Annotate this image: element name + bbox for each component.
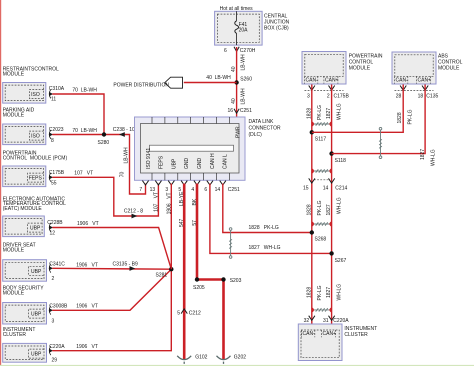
svg-text:C3135 - B9: C3135 - B9 (113, 261, 139, 267)
svg-text:40 LB-WH: 40 LB-WH (206, 75, 231, 81)
splice S281 (169, 267, 173, 271)
module RESTRAINTS CONTROL MODULE box (3, 83, 46, 104)
svg-text:6: 6 (224, 48, 227, 54)
svg-text:C214: C214 (335, 186, 347, 192)
wire 40 LB-WH from power distribution to S260 (184, 82, 237, 84)
svg-text:C251: C251 (240, 108, 252, 114)
svg-text:1906 VT: 1906 VT (76, 344, 98, 350)
svg-text:107: 107 (153, 203, 159, 212)
svg-text:1828: 1828 (306, 108, 312, 119)
twisted pair symbol above C214 (312, 169, 332, 173)
ground G102 (177, 356, 191, 364)
svg-text:1827: 1827 (326, 204, 332, 215)
svg-text:40: 40 (231, 98, 237, 104)
svg-text:S267: S267 (335, 258, 347, 264)
wire CAN H 1827 WH-LG from DLC pin 6 to S267 (210, 184, 332, 254)
svg-text:C228B: C228B (47, 220, 63, 226)
svg-text:MODULE: MODULE (438, 65, 460, 71)
svg-text:GND: GND (184, 158, 190, 170)
wire 1906 VT from instrument cluster to S281 (52, 269, 171, 351)
ABS pin arrows (400, 86, 428, 91)
twisted pair symbol above S117 (312, 122, 332, 126)
svg-text:MODULE: MODULE (349, 65, 371, 71)
svg-text:14: 14 (323, 186, 329, 192)
svg-text:WH-LG: WH-LG (431, 149, 437, 166)
svg-text:C341C: C341C (49, 262, 65, 268)
svg-text:MODULE: MODULE (3, 290, 25, 296)
svg-text:BOX (CJB): BOX (CJB) (264, 26, 289, 32)
svg-text:CAN+: CAN+ (418, 77, 432, 83)
svg-text:1906 VT: 1906 VT (76, 304, 98, 310)
svg-text:G202: G202 (234, 355, 246, 361)
svg-text:28: 28 (396, 94, 402, 100)
svg-text:20A: 20A (239, 27, 249, 33)
svg-text:UBP: UBP (31, 269, 42, 275)
svg-text:FEPS: FEPS (159, 155, 165, 169)
svg-text:DATA LINK: DATA LINK (249, 119, 274, 125)
page bottom edge green border artifact (0, 365, 474, 366)
connector C228B arrow (49, 225, 53, 229)
svg-text:3: 3 (52, 319, 55, 325)
svg-text:57: 57 (192, 220, 198, 226)
module PARKING AID MODULE box (3, 124, 46, 145)
svg-text:7: 7 (139, 187, 142, 193)
svg-text:PK-LG: PK-LG (317, 285, 323, 300)
svg-text:ISO: ISO (31, 134, 40, 140)
svg-text:WH-LG: WH-LG (337, 197, 343, 214)
twisted pair symbol between S117/S118 lines (379, 127, 382, 158)
DLC bottom pin arrows (142, 181, 226, 185)
svg-text:1906: 1906 (166, 203, 172, 214)
in-line connector C3135 - B9 arrow (130, 266, 136, 271)
svg-text:1827: 1827 (420, 149, 426, 160)
module PCM box (3, 166, 46, 187)
svg-text:1827: 1827 (326, 108, 332, 119)
svg-text:14: 14 (215, 187, 221, 193)
svg-text:C220A: C220A (49, 344, 65, 350)
svg-text:31: 31 (323, 318, 329, 324)
PCM bottom dashed connector line (305, 90, 344, 92)
svg-text:ISO 9141: ISO 9141 (146, 148, 152, 169)
svg-text:MODULE: MODULE (3, 72, 25, 78)
connector C3008B arrow (49, 308, 53, 312)
svg-text:C220A: C220A (333, 318, 349, 324)
svg-text:6: 6 (204, 187, 207, 193)
svg-text:CAN+: CAN+ (325, 77, 339, 83)
svg-text:CAN-: CAN- (303, 331, 316, 337)
svg-text:S268: S268 (315, 237, 327, 243)
svg-text:C238 - 10: C238 - 10 (113, 127, 135, 133)
connector C2023 arrow (49, 132, 53, 136)
svg-text:70: 70 (120, 172, 126, 178)
in-line connector C214 (314, 179, 329, 181)
svg-text:PWR: PWR (235, 126, 241, 138)
svg-text:S280: S280 (98, 140, 110, 146)
svg-text:PK-LG: PK-LG (317, 105, 323, 120)
svg-text:LB-WH: LB-WH (123, 147, 129, 164)
svg-text:CONNECTOR: CONNECTOR (249, 126, 282, 132)
svg-text:1827 WH-LG: 1827 WH-LG (249, 245, 281, 251)
wire S118 to ABS CAN+ (332, 85, 426, 154)
svg-text:1828 PK-LG: 1828 PK-LG (249, 225, 279, 231)
svg-text:CAN H: CAN H (210, 153, 216, 169)
svg-text:CONTROL MODULE (PCM): CONTROL MODULE (PCM) (3, 155, 68, 161)
splice S118 (329, 151, 333, 155)
svg-text:S281: S281 (156, 273, 168, 279)
svg-text:(EATC) MODULE: (EATC) MODULE (3, 206, 43, 212)
module ABS CONTROL MODULE box (392, 52, 436, 84)
wire UBP 1906 from DLC pin 3 to S281 (170, 184, 172, 270)
module EATC box (3, 216, 45, 237)
svg-text:18: 18 (418, 94, 424, 100)
svg-text:S117: S117 (315, 137, 327, 143)
wire CAN L 1828 PK-LG from DLC pin 14 to S268 (223, 184, 312, 233)
splice S260 (234, 80, 238, 84)
in-line connector C212 - 8 arrow (132, 214, 138, 219)
module BODY SECURITY box (3, 303, 47, 325)
svg-text:FEPS: FEPS (29, 176, 43, 182)
connector C270H arrow (234, 47, 239, 52)
svg-text:CAN+: CAN+ (323, 331, 337, 337)
wire 70 LB-WH from C310A to S280 (52, 94, 104, 135)
svg-text:C270H: C270H (240, 48, 256, 54)
svg-text:CAN L: CAN L (223, 154, 229, 169)
connector C220A arrows (309, 316, 335, 321)
svg-text:C212: C212 (189, 311, 201, 317)
in-line connector C238 - 10 arrow (119, 132, 125, 137)
wire 1906 VT from body security to S281 (52, 269, 171, 310)
wire GND 57 BK from DLC pin 4 to S205 (197, 184, 224, 360)
svg-text:55: 55 (51, 181, 57, 187)
svg-text:70 LB-WH: 70 LB-WH (72, 87, 97, 93)
svg-text:CAN-: CAN- (396, 77, 409, 83)
wire 107 VT from PCM to DLC pin 13 (52, 177, 158, 216)
svg-text:2: 2 (52, 276, 55, 282)
wire 1906 VT from driver seat to S281 (52, 267, 171, 270)
splice S203 (221, 277, 225, 281)
svg-text:3: 3 (307, 94, 310, 100)
splice S117 (310, 130, 314, 134)
svg-text:G102: G102 (195, 355, 207, 361)
svg-text:(DLC): (DLC) (249, 132, 263, 138)
svg-text:1906 VT: 1906 VT (76, 262, 98, 268)
svg-text:1828: 1828 (306, 287, 312, 298)
in-line connector C212 pin 5 arrow (181, 309, 187, 314)
svg-text:CLUSTER: CLUSTER (3, 332, 27, 338)
connector C251 arrow (top) (234, 109, 239, 114)
svg-text:MODULE: MODULE (3, 113, 25, 119)
svg-text:1828: 1828 (397, 112, 403, 123)
svg-text:C2023: C2023 (49, 127, 64, 133)
svg-text:5: 5 (177, 311, 180, 317)
wire 1906 VT from EATC to S281 (52, 228, 171, 270)
ground G202 (217, 356, 231, 364)
module POWERTRAIN CONTROL MODULE (right) box (302, 52, 346, 85)
ABS bottom dashed connector line (395, 90, 434, 92)
svg-text:547: 547 (179, 218, 185, 227)
svg-text:PK-LG: PK-LG (407, 109, 413, 124)
svg-text:1828: 1828 (306, 204, 312, 215)
svg-text:107 VT: 107 VT (74, 171, 93, 177)
svg-text:UBP: UBP (171, 158, 177, 169)
power distribution flag (165, 77, 183, 88)
svg-text:VT: VT (166, 192, 172, 198)
module DRIVER SEAT box (3, 260, 47, 282)
module INSTRUMENT CLUSTER (right) box (298, 324, 342, 361)
svg-text:S118: S118 (335, 158, 347, 164)
wire 40 LB-WH from CJB to DLC PWR (236, 47, 238, 117)
DLC top pin strip ticks (152, 117, 229, 124)
svg-text:C3008B: C3008B (49, 303, 68, 309)
data link connector DLC box (135, 117, 246, 180)
svg-text:LB-WH: LB-WH (240, 88, 246, 105)
svg-text:CAN-: CAN- (306, 77, 319, 83)
central junction box CJB (215, 11, 263, 45)
svg-text:1906 VT: 1906 VT (77, 221, 99, 227)
splice S280 (102, 132, 106, 136)
splice S268 (310, 230, 314, 234)
svg-text:BK: BK (192, 198, 198, 205)
svg-text:4: 4 (191, 187, 194, 193)
svg-text:32: 32 (304, 318, 310, 324)
svg-text:CLUSTER: CLUSTER (344, 332, 368, 338)
svg-text:UBP: UBP (31, 312, 42, 318)
wire 1828 PK-LG PCM CAN- vertical (311, 85, 313, 325)
svg-text:70 LB-WH: 70 LB-WH (72, 128, 97, 134)
svg-text:3: 3 (165, 187, 168, 193)
wire S117 to ABS CAN- (312, 85, 403, 133)
wire GND 547 LB-YE from DLC pin 5 to G102 (183, 184, 186, 360)
DLC bottom pin strip ticks (152, 173, 229, 180)
svg-text:ISO: ISO (31, 92, 40, 98)
connector C341C arrow (49, 266, 53, 270)
svg-text:UBP: UBP (31, 352, 42, 358)
svg-text:PK-LG: PK-LG (317, 200, 323, 215)
svg-text:15: 15 (303, 186, 309, 192)
twisted pair symbol between CAN wires (229, 228, 232, 259)
svg-text:LB-YE: LB-YE (179, 191, 185, 206)
svg-text:LB-WH: LB-WH (240, 54, 246, 71)
svg-text:C175B: C175B (334, 94, 350, 100)
svg-text:WH-LG: WH-LG (337, 284, 343, 301)
svg-text:GND: GND (197, 158, 203, 170)
svg-text:16: 16 (227, 108, 233, 114)
splice S267 (329, 251, 333, 255)
svg-text:C175B: C175B (49, 170, 65, 176)
svg-text:12: 12 (50, 231, 56, 237)
module INSTRUMENT CLUSTER (left) box (3, 343, 47, 362)
svg-text:MODULE: MODULE (3, 247, 25, 253)
svg-text:2: 2 (327, 94, 330, 100)
svg-text:1827: 1827 (326, 287, 332, 298)
svg-text:POWER DISTRIBUTION: POWER DISTRIBUTION (113, 83, 169, 89)
wire 1827 WH-LG PCM CAN+ vertical (331, 85, 333, 325)
svg-text:S260: S260 (240, 77, 252, 83)
page left edge red border artifact (0, 0, 1, 366)
svg-text:WH-LG: WH-LG (337, 103, 343, 120)
svg-text:8: 8 (51, 138, 54, 144)
svg-text:S203: S203 (230, 278, 242, 284)
twisted pair symbol above C220A (312, 308, 332, 312)
svg-text:C212 - 8: C212 - 8 (124, 209, 143, 215)
splice S205 (195, 277, 199, 281)
svg-text:13: 13 (150, 187, 156, 193)
svg-text:40: 40 (231, 66, 237, 72)
svg-text:S205: S205 (193, 285, 205, 291)
connector C220A arrow (left cluster) (49, 349, 53, 353)
svg-text:29: 29 (52, 358, 58, 364)
PCM pin arrows (309, 86, 335, 91)
svg-text:C310A: C310A (49, 86, 65, 92)
twisted pair symbol above S268 (312, 222, 332, 226)
svg-text:C135: C135 (426, 94, 438, 100)
connector C175B arrow (49, 175, 53, 179)
fuse F41 20A (235, 11, 239, 45)
svg-text:11: 11 (51, 96, 56, 102)
connector C310A arrow (49, 92, 53, 96)
svg-text:C251: C251 (228, 187, 240, 193)
wire 70 LB-WH from C2023 to S280 and on to DLC pin 7 (52, 135, 145, 195)
svg-text:UBP: UBP (30, 226, 41, 232)
